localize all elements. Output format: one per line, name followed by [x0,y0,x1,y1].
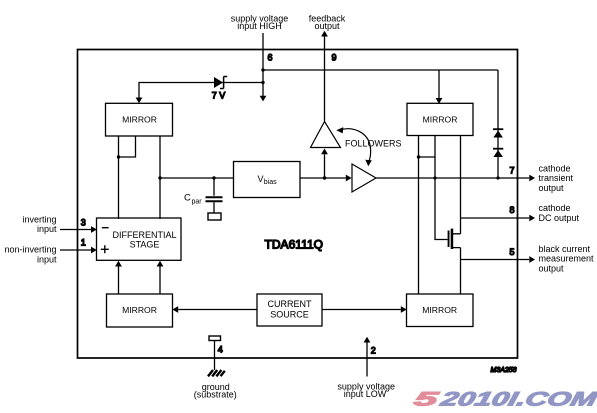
current source box [257,294,322,326]
label feedback output [309,14,346,32]
zener diode 7V [214,77,227,89]
svg-text:6: 6 [268,53,273,63]
svg-text:MIRROR: MIRROR [122,305,157,315]
pin 4 pad [209,336,221,341]
op-amp follower 2 (right triangle) [352,164,376,192]
wire 7V branch to left mirror [136,83,263,104]
curved arrow linking followers [336,127,372,166]
wire pin 9 feedback output [321,31,328,121]
mirror top-right box [407,103,473,135]
op-amp follower 1 (up triangle) [311,122,341,148]
svg-text:cathode: cathode [539,164,571,174]
label inverting input [22,214,57,234]
label ground (substrate) [194,382,237,400]
svg-text:FOLLOWERS: FOLLOWERS [345,138,402,148]
svg-text:DC output: DC output [539,213,580,223]
svg-text:C: C [184,193,191,204]
svg-text:cathode: cathode [539,203,571,213]
wire diode chain branch [497,70,499,178]
svg-text:MIRROR: MIRROR [423,115,458,125]
svg-text:input HIGH: input HIGH [237,21,282,31]
mirror bottom-right box [407,294,474,327]
wire pin 4 ground [214,341,216,371]
wire left mirror lower-left leg to differential stage [117,136,120,219]
svg-text:output: output [539,263,565,273]
watermark 52010I.COM [412,389,597,411]
svg-text:STAGE: STAGE [130,239,160,249]
differential stage box [97,218,182,260]
wire follower 1 feed with up arrow [321,149,328,180]
svg-text:9: 9 [332,53,337,63]
svg-text:input: input [37,224,57,234]
svg-text:4: 4 [218,345,223,355]
svg-text:measurement: measurement [539,254,595,264]
svg-text:7 V: 7 V [212,91,226,101]
svg-text:TDA6111Q: TDA6111Q [265,238,324,252]
svg-text:SOURCE: SOURCE [270,310,309,320]
wire pin 3 inverting input [60,226,97,233]
wire bottom mirror to diff stage arrow 1 [115,261,122,294]
mirror bottom-left box [107,294,173,327]
label non-inverting input [4,245,57,265]
wire pin 8 cathode DC output [461,215,536,222]
svg-text:5: 5 [412,389,442,411]
capacitor Cpar [206,178,223,220]
label cathode transient output [539,164,574,193]
svg-text:par: par [192,199,203,206]
wire output amp to pin 7 [376,175,535,182]
wire pin 5 black current output [461,256,536,263]
svg-text:1: 1 [81,238,86,248]
svg-text:8: 8 [510,205,515,215]
svg-text:2010I.COM: 2010I.COM [437,389,597,411]
wire drain leg from right mirror [460,136,462,234]
svg-text:output: output [539,183,565,193]
svg-text:V: V [258,174,264,184]
svg-text:7: 7 [510,166,515,176]
svg-text:non-inverting: non-inverting [4,245,56,255]
svg-text:input: input [37,254,57,264]
wire pin 2 supply LOW [364,337,371,377]
diode D2 [493,149,503,157]
label Cpar [184,193,202,206]
diode D1 [493,129,503,137]
label supply voltage input LOW [337,382,395,400]
wire left mirror right leg down to rail [158,136,161,219]
svg-text:bias: bias [264,179,277,186]
svg-text:5: 5 [510,247,515,257]
wire gate feed [435,157,448,240]
wire right mirror diode-connect step [419,136,436,158]
wire bias rail to Vbias [160,176,234,179]
svg-text:transient: transient [539,173,574,183]
wire into top-right mirror from rail [436,70,443,104]
wire current source to left mirror [172,306,257,313]
wire Vbias output to follower 2 [300,175,352,182]
ground (substrate) symbol [208,370,225,376]
svg-text:MIRROR: MIRROR [122,115,157,125]
wire right mirror left leg down to bottom mirror [417,136,420,295]
svg-text:input LOW: input LOW [344,389,387,399]
label supply voltage input HIGH [231,14,289,32]
svg-text:MIRROR: MIRROR [422,305,457,315]
chip outline TDA6111Q [78,50,518,359]
wire current source to right mirror [322,306,407,313]
svg-text:output: output [314,21,340,31]
svg-text:M3A258: M3A258 [491,367,517,374]
svg-text:2: 2 [371,345,376,355]
svg-text:CURRENT: CURRENT [268,299,313,309]
Vbias box [234,162,301,198]
wire source leg to bottom-right mirror [460,248,462,294]
svg-text:inverting: inverting [22,214,56,224]
svg-text:black current: black current [539,244,591,254]
wire pin 1 non-inverting input [60,247,97,254]
transistor Q1 MOSFET [448,229,461,249]
label black current measurement output [539,244,595,273]
svg-text:3: 3 [81,217,86,227]
mirror top-left box [106,103,173,136]
wire bottom mirror to diff stage arrow 2 [157,261,164,294]
wire left mirror diode-connect step [119,136,136,157]
wire pin 6 supply HIGH vertical [260,33,498,101]
label cathode DC output [539,203,580,223]
svg-text:(substrate): (substrate) [194,390,237,400]
